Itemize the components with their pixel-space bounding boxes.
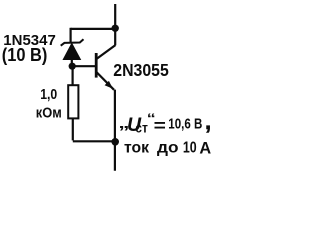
svg-text:1,0: 1,0	[40, 87, 57, 103]
svg-text:кОм: кОм	[36, 106, 62, 122]
svg-text:10: 10	[183, 140, 197, 157]
svg-text:10,6 В: 10,6 В	[168, 116, 202, 132]
node A: junction dot top rail	[112, 25, 119, 32]
wire: emitter rail vertical bottom	[114, 90, 116, 171]
svg-text:(10 В): (10 В)	[2, 44, 48, 65]
zener diode VD1 1N5347 triangle	[63, 43, 81, 59]
svg-text:,: ,	[205, 109, 211, 134]
svg-text:ток: ток	[124, 140, 149, 157]
node C: junction dot bottom rail	[111, 138, 119, 146]
transistor Q1 emitter lead	[96, 72, 114, 90]
wire: resistor bottom lead	[72, 118, 74, 140]
transistor Q1 2N3055 base bar	[95, 53, 98, 78]
wire: zener top lead	[69, 28, 71, 43]
svg-text:до: до	[157, 140, 179, 157]
svg-text:2N3055: 2N3055	[113, 60, 169, 80]
wire: resistor top lead	[71, 66, 73, 85]
wire: collector rail vertical top	[114, 4, 116, 45]
zener diode VD1 1N5347 cathode bar	[61, 39, 84, 46]
transistor Q1 collector lead	[96, 45, 115, 59]
svg-text:=: =	[154, 117, 166, 136]
transistor Q1 emitter arrowhead	[105, 81, 113, 89]
node B: junction dot zener/resistor/base	[69, 63, 76, 70]
wire: base wire from node to transistor	[72, 65, 96, 67]
svg-text:А: А	[199, 140, 211, 158]
wire: zener bottom lead	[71, 59, 73, 67]
wire: bottom horizontal to rail	[73, 140, 115, 142]
wire: top horizontal from zener to rail	[71, 28, 116, 30]
resistor R1 body	[68, 85, 78, 118]
